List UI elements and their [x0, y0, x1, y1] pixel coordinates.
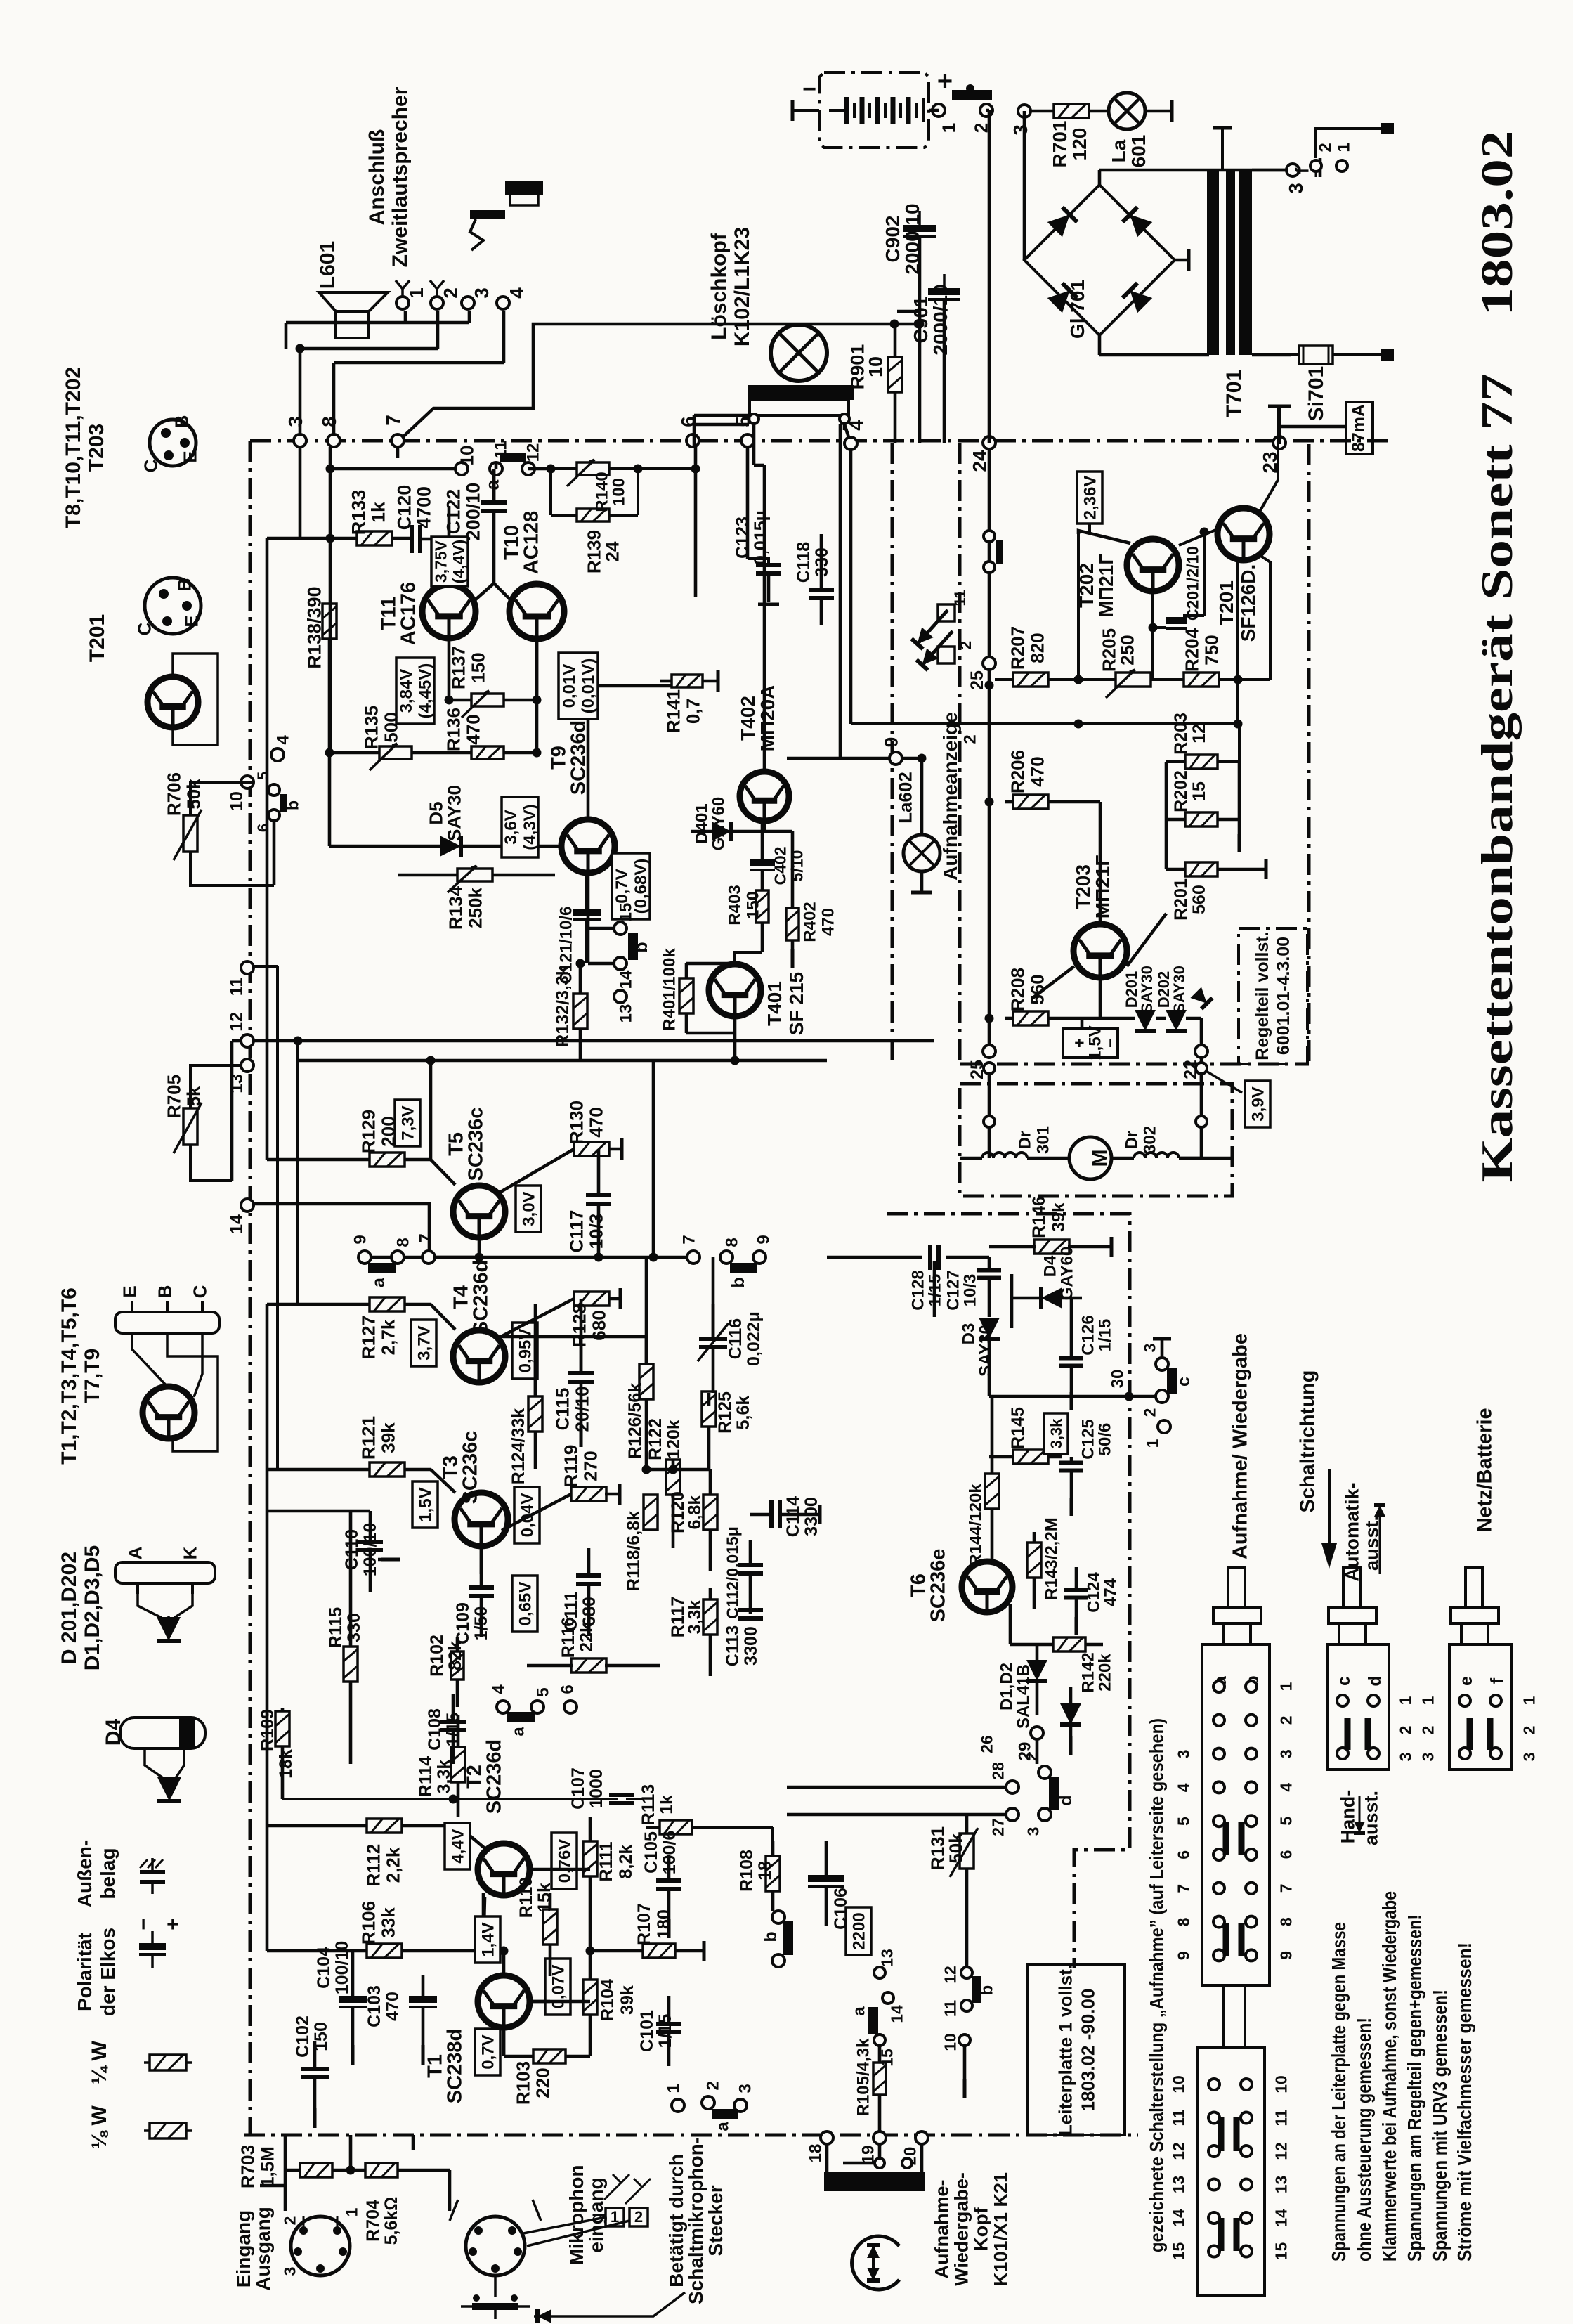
wafer2 body	[1197, 2048, 1265, 2295]
svg-text:B: B	[171, 415, 192, 429]
svg-text:f: f	[1291, 167, 1312, 174]
capacitor C124	[1064, 1567, 1121, 1635]
resistor R133	[348, 490, 392, 545]
resistor R112	[267, 1819, 485, 1886]
svg-text:R122: R122	[646, 1418, 665, 1460]
capacitor C128 C127	[827, 1245, 1001, 1317]
label Anschluss Zweitlautsprecher	[365, 86, 412, 267]
svg-text:E: E	[181, 615, 202, 627]
svg-text:8: 8	[318, 416, 340, 427]
transistor T201	[1179, 406, 1278, 724]
svg-text:3,3k: 3,3k	[434, 1760, 454, 1794]
resistor R132	[553, 959, 587, 1061]
svg-text:C902: C902	[882, 216, 903, 263]
wire erase head connections	[694, 415, 851, 758]
voltage box 0,7V 0,68V	[612, 853, 651, 919]
caption line 6	[1454, 1942, 1475, 2261]
svg-text:D1,D2,D3,D5: D1,D2,D3,D5	[81, 1545, 104, 1670]
svg-text:470: 470	[462, 714, 483, 744]
svg-text:R105/4,3k: R105/4,3k	[854, 2038, 873, 2116]
transistor T203	[1033, 802, 1166, 998]
mic switch bar	[461, 2294, 530, 2319]
transistor T202	[1076, 539, 1179, 617]
svg-text:Dr: Dr	[1016, 1131, 1035, 1150]
capacitor C901	[910, 274, 960, 356]
svg-text:15: 15	[1189, 781, 1209, 801]
erase head K102	[748, 385, 854, 424]
capacitor C105	[641, 1831, 681, 1938]
voltage box 0,07V	[545, 1959, 570, 2015]
switch e near battery	[932, 84, 993, 133]
svg-text:14: 14	[887, 2005, 906, 2023]
svg-text:3,6V: 3,6V	[502, 810, 521, 844]
svg-text:M: M	[1088, 1150, 1111, 1167]
svg-text:T203: T203	[1072, 864, 1094, 909]
svg-text:R126/56k: R126/56k	[625, 1383, 645, 1460]
pushbutton ab stem	[1213, 1567, 1261, 1644]
svg-text:1: 1	[1520, 1696, 1538, 1705]
svg-text:R114: R114	[416, 1756, 436, 1797]
svg-text:R146: R146	[1029, 1196, 1049, 1238]
head switch contacts 13 14 15	[850, 1949, 906, 2067]
capacitor C103	[365, 1975, 437, 2065]
svg-text:Spannungen mit URV3 gemessen!: Spannungen mit URV3 gemessen!	[1429, 1989, 1451, 2261]
resistor R122	[646, 1418, 709, 1548]
transistor T10	[500, 511, 564, 639]
svg-text:R204: R204	[1181, 628, 1202, 672]
svg-text:330: 330	[344, 1613, 364, 1642]
capacitor C117	[566, 1149, 611, 1257]
capacitor C107	[453, 1767, 643, 1810]
svg-text:R124/33k: R124/33k	[509, 1408, 528, 1485]
capacitor C902	[882, 203, 936, 274]
wire bottom bus nodes	[807, 2131, 928, 2165]
capacitor C101	[637, 1996, 681, 2066]
battery cells	[829, 97, 924, 124]
legend label T1-T6 T7 T9	[58, 1287, 104, 1465]
svg-text:1,5V: 1,5V	[417, 1487, 436, 1521]
svg-text:C118: C118	[794, 542, 814, 583]
svg-text:Hand-: Hand-	[1338, 1790, 1359, 1844]
node 29	[1016, 1727, 1043, 1764]
voltage box 3,75V	[431, 537, 468, 586]
resistor R105	[854, 2038, 886, 2135]
svg-text:R402: R402	[801, 902, 820, 942]
svg-text:Mikrophon: Mikrophon	[566, 2164, 587, 2265]
transistor T6	[907, 1549, 1012, 1623]
wire bottom border horizontal	[244, 2134, 1138, 2137]
pushbutton ab numbers left	[1174, 1750, 1192, 1961]
svg-text:1000: 1000	[587, 1769, 606, 1808]
diodes D1 D2	[998, 1644, 1081, 1755]
svg-text:R102: R102	[427, 1635, 447, 1677]
voltage box 2,36V	[1077, 472, 1102, 680]
svg-text:13: 13	[877, 1949, 896, 1967]
svg-text:7: 7	[382, 415, 404, 426]
node 3 on top bus	[285, 416, 306, 447]
node 4 near erase head	[844, 420, 867, 450]
svg-text:Ausgang: Ausgang	[252, 2207, 274, 2291]
legend transistor symbol T201	[148, 654, 218, 745]
svg-text:R125: R125	[715, 1391, 735, 1434]
svg-text:R143/2,2M: R143/2,2M	[1043, 1517, 1062, 1599]
svg-text:4: 4	[490, 1684, 509, 1694]
svg-text:750: 750	[1201, 635, 1222, 665]
svg-text:R701: R701	[1049, 121, 1071, 168]
svg-text:R136: R136	[443, 708, 464, 751]
switch row 1 2 3 bottom	[665, 2081, 755, 2131]
resistor R141	[660, 670, 718, 733]
svg-text:T401: T401	[764, 981, 785, 1026]
svg-text:−: −	[1102, 1038, 1121, 1048]
svg-text:1: 1	[665, 2084, 684, 2093]
svg-text:3,9V: 3,9V	[1249, 1086, 1268, 1121]
transistor T2	[463, 1739, 530, 1895]
resistor R136	[443, 708, 504, 759]
capacitor C126	[1059, 1298, 1115, 1410]
svg-text:6: 6	[1174, 1850, 1192, 1859]
legend label T8 T10 T11 T202 T203	[62, 367, 108, 528]
svg-text:25: 25	[967, 670, 987, 690]
switch b contacts 11 12	[941, 1966, 996, 2098]
wire mid bus	[435, 1060, 687, 1262]
svg-text:24: 24	[601, 541, 622, 561]
node 7 on top bus	[382, 415, 404, 447]
svg-text:27: 27	[988, 1818, 1007, 1836]
pot R205	[1078, 628, 1183, 698]
label Leiterplatte box	[1027, 1964, 1125, 2136]
svg-text:a: a	[714, 2122, 733, 2131]
svg-text:11: 11	[951, 590, 969, 606]
svg-text:E: E	[179, 450, 200, 462]
voltage box 0,95V	[512, 1323, 537, 1379]
resistor R125	[702, 1391, 753, 1469]
resistor R114	[416, 1715, 465, 1817]
svg-text:R206: R206	[1007, 750, 1028, 793]
svg-text:ausst.: ausst.	[1361, 1791, 1382, 1845]
svg-text:0,76V: 0,76V	[556, 1839, 575, 1883]
lamp La602	[894, 754, 940, 893]
switch contact b bottom	[761, 1911, 788, 1967]
svg-text:12: 12	[227, 1012, 247, 1032]
svg-text:4: 4	[1277, 1783, 1295, 1792]
transformer T701	[1207, 128, 1286, 417]
svg-text:C125: C125	[1079, 1419, 1098, 1459]
svg-text:b: b	[729, 1277, 748, 1287]
trimmer C116	[698, 1257, 764, 1393]
pushbutton ab numbers right	[1277, 1682, 1295, 1959]
resistor R118	[624, 1495, 658, 1591]
svg-text:R104: R104	[598, 1979, 618, 2021]
svg-text:T203: T203	[85, 424, 108, 472]
svg-text:9: 9	[1174, 1951, 1192, 1960]
resistor R119	[502, 1445, 620, 1531]
switch d contacts	[787, 1735, 1076, 1836]
svg-text:Polarität: Polarität	[74, 1933, 96, 2011]
svg-text:1,4V: 1,4V	[479, 1922, 498, 1956]
pot R705	[163, 1041, 241, 1181]
svg-text:5: 5	[534, 1687, 553, 1696]
wire motor module box	[960, 1084, 1232, 1196]
svg-text:1: 1	[342, 2207, 360, 2216]
wire record module border	[892, 443, 1309, 1064]
pot R706	[163, 772, 274, 885]
node 23 on top bus	[1259, 436, 1286, 474]
svg-text:180: 180	[654, 1909, 674, 1939]
svg-text:9: 9	[351, 1235, 370, 1244]
svg-text:C120: C120	[394, 485, 415, 531]
node 8 on top bus	[318, 416, 340, 447]
svg-text:3: 3	[1285, 183, 1307, 194]
legend symbol Polaritaet	[132, 1918, 185, 1968]
voltage box 4,4V	[445, 1823, 470, 1869]
svg-text:2000/10: 2000/10	[929, 284, 951, 355]
svg-text:2: 2	[1140, 1408, 1158, 1417]
svg-text:SC236d: SC236d	[469, 1260, 492, 1335]
svg-text:C103: C103	[365, 1985, 384, 2027]
svg-text:D1,D2: D1,D2	[998, 1663, 1017, 1710]
svg-text:C102: C102	[293, 2015, 313, 2058]
resistor R130	[500, 1101, 622, 1193]
voltage box 0,76V	[551, 1833, 577, 1889]
speaker L601	[319, 292, 388, 338]
svg-text:D401: D401	[693, 803, 712, 843]
wire bridge	[1024, 111, 1307, 355]
voltage box 3,0V	[516, 1186, 541, 1232]
svg-text:a: a	[369, 1277, 389, 1287]
svg-text:C117: C117	[566, 1210, 587, 1253]
capacitor C110	[267, 1511, 400, 1592]
svg-text:11: 11	[1169, 2109, 1187, 2127]
wire erase feed node7 diagonal	[399, 320, 925, 441]
svg-text:a: a	[509, 1727, 528, 1736]
terminal 3	[462, 287, 492, 309]
resistor R204	[1181, 628, 1270, 687]
svg-text:Si701: Si701	[1305, 366, 1328, 421]
motor M	[1069, 1137, 1111, 1179]
svg-text:18: 18	[807, 2144, 825, 2163]
voltage box 3,7V	[411, 1320, 436, 1366]
mains connector f	[1291, 129, 1353, 177]
svg-text:Aufnahme/ Wiedergabe: Aufnahme/ Wiedergabe	[1229, 1333, 1251, 1559]
svg-text:7: 7	[1277, 1883, 1295, 1893]
voltage box 0,65V	[512, 1576, 537, 1632]
capacitor C109	[453, 1546, 494, 1644]
diode D401	[691, 797, 762, 851]
svg-text:4: 4	[274, 735, 293, 745]
svg-text:eingang: eingang	[585, 2177, 607, 2252]
svg-text:ohne Aussteuerung gemessen!: ohne Aussteuerung gemessen!	[1353, 2018, 1375, 2261]
legend D4 package	[120, 1718, 205, 1778]
node 6 on top bus	[677, 416, 699, 447]
resistor R116	[527, 1617, 660, 1673]
svg-text:2: 2	[440, 287, 462, 299]
svg-text:(4,45V): (4,45V)	[416, 663, 435, 719]
svg-text:Regelteil vollst.: Regelteil vollst.	[1253, 931, 1272, 1060]
svg-text:Spannungen am Regelteil gegen+: Spannungen am Regelteil gegen+gemessen!	[1404, 1914, 1425, 2261]
svg-text:R202: R202	[1171, 770, 1191, 812]
svg-text:−: −	[802, 76, 816, 103]
svg-text:f: f	[1487, 1677, 1507, 1684]
svg-text:Stecker: Stecker	[705, 2185, 726, 2256]
capacitor C114	[750, 1496, 821, 1537]
svg-text:SAL41B: SAL41B	[1014, 1664, 1033, 1729]
svg-text:a: a	[481, 479, 502, 490]
svg-text:R208: R208	[1007, 968, 1028, 1011]
svg-text:82k: 82k	[445, 1641, 465, 1670]
resistor R124	[509, 1304, 542, 1484]
svg-text:МП20A: МП20A	[757, 685, 778, 752]
svg-text:T7,T9: T7,T9	[81, 1349, 104, 1403]
svg-text:50k: 50k	[945, 1833, 966, 1864]
pushbutton cd numbers	[1396, 1696, 1437, 1761]
svg-text:11: 11	[492, 441, 511, 458]
svg-text:(0,01V): (0,01V)	[579, 658, 598, 714]
svg-text:39k: 39k	[1049, 1202, 1069, 1232]
azimuth symbol	[852, 2236, 899, 2290]
svg-text:R112: R112	[363, 1844, 384, 1887]
svg-text:1,5M: 1,5M	[256, 2146, 278, 2187]
voltage box 3,6V	[502, 797, 540, 857]
svg-text:a: a	[850, 2006, 869, 2016]
wire psu caps	[897, 236, 944, 443]
svg-text:Netz/Batterie: Netz/Batterie	[1473, 1408, 1496, 1532]
wire battery to node24	[929, 110, 989, 443]
svg-text:R115: R115	[326, 1607, 346, 1648]
voltage box 0,01V	[559, 653, 598, 719]
svg-text:SC236d: SC236d	[483, 1739, 505, 1814]
resistor R127	[267, 1297, 455, 1359]
svg-text:5k: 5k	[183, 1086, 204, 1106]
resistor R138	[304, 586, 337, 668]
meter arrows	[911, 590, 974, 670]
capacitor C108	[425, 1694, 466, 1764]
svg-text:14: 14	[1169, 2209, 1187, 2227]
svg-text:3: 3	[471, 287, 492, 299]
svg-text:3,3k: 3,3k	[685, 1600, 705, 1635]
svg-text:150: 150	[744, 891, 763, 919]
svg-text:6: 6	[1277, 1850, 1295, 1859]
svg-text:2: 2	[1277, 1715, 1295, 1725]
svg-text:8: 8	[394, 1238, 413, 1247]
svg-text:Aufnahmeanzeige: Aufnahmeanzeige	[939, 712, 961, 881]
svg-text:8: 8	[723, 1238, 742, 1247]
wire mains lead	[1252, 349, 1394, 361]
svg-text:0,015μ: 0,015μ	[751, 510, 771, 565]
capacitor C102	[293, 2015, 331, 2128]
svg-text:1: 1	[1396, 1696, 1414, 1705]
svg-text:13: 13	[617, 1004, 636, 1023]
svg-text:470: 470	[585, 1107, 606, 1137]
svg-text:12: 12	[524, 443, 543, 462]
capacitor C113	[723, 1610, 763, 1666]
svg-text:−: −	[132, 1918, 155, 1930]
svg-text:Betätigt durch: Betätigt durch	[665, 2154, 687, 2287]
svg-text:14: 14	[227, 1214, 247, 1234]
svg-text:5: 5	[254, 772, 272, 780]
resistor R107	[590, 1903, 704, 1961]
svg-text:15: 15	[617, 903, 636, 922]
label Aufnahme Wiedergabe switch	[1229, 1333, 1251, 1559]
svg-text:2: 2	[961, 734, 980, 744]
pot R140 loop	[551, 460, 643, 515]
svg-text:3: 3	[1140, 1344, 1158, 1353]
svg-text:Wiedergabe-: Wiedergabe-	[951, 2172, 972, 2286]
voltage box 1,4V	[475, 1916, 500, 1963]
svg-text:0,01V: 0,01V	[560, 664, 579, 708]
svg-text:SF126D.: SF126D.	[1237, 564, 1259, 642]
svg-text:8: 8	[1277, 1917, 1295, 1926]
speaker L601 label	[316, 241, 339, 289]
svg-text:T402: T402	[737, 696, 759, 741]
svg-text:R704: R704	[363, 2200, 383, 2242]
wafer2 numbers	[1169, 2075, 1290, 2260]
svg-text:C: C	[140, 459, 161, 472]
capacitor C201	[1149, 546, 1202, 680]
svg-text:8: 8	[1174, 1917, 1192, 1926]
svg-text:SC236e: SC236e	[927, 1549, 949, 1623]
svg-text:A: A	[124, 1546, 145, 1559]
legend label D4	[102, 1719, 125, 1746]
svg-text:10: 10	[866, 356, 887, 377]
svg-text:3: 3	[285, 416, 306, 427]
svg-text:C: C	[133, 622, 155, 635]
svg-text:11: 11	[227, 978, 247, 997]
svg-text:1803.02 -90.00: 1803.02 -90.00	[1077, 1989, 1098, 2112]
label Aufnahmeanzeige	[939, 712, 961, 881]
svg-text:R142: R142	[1079, 1652, 1098, 1692]
wire main module border left vertical	[249, 441, 252, 2135]
voltage box 3,9V	[1201, 1058, 1270, 1127]
svg-text:R134: R134	[445, 885, 466, 930]
svg-text:C123: C123	[733, 517, 752, 559]
svg-text:10: 10	[941, 2033, 959, 2051]
svg-text:12: 12	[1189, 724, 1209, 744]
svg-text:3: 3	[1010, 124, 1031, 136]
legend label T201	[86, 614, 109, 662]
svg-text:C402: C402	[771, 847, 789, 885]
svg-text:GAY60: GAY60	[710, 797, 729, 851]
choke Dr302	[1111, 1126, 1232, 1158]
svg-text:120: 120	[1069, 128, 1090, 161]
svg-text:K102/L1K23: K102/L1K23	[731, 227, 754, 346]
pushbutton cd body	[1327, 1644, 1389, 1770]
wire motor leads	[984, 1063, 1207, 1158]
svg-text:10: 10	[1272, 2075, 1290, 2093]
svg-text:1: 1	[1143, 1439, 1161, 1448]
svg-text:18k: 18k	[276, 1749, 296, 1779]
svg-text:3,75V: 3,75V	[431, 540, 450, 583]
svg-text:9: 9	[1277, 1951, 1295, 1960]
svg-text:1/15: 1/15	[655, 2014, 675, 2049]
svg-text:560: 560	[1026, 974, 1047, 1004]
transistor T401	[709, 964, 807, 1035]
legend D4 diode symbol	[157, 1777, 181, 1801]
box Regelteil	[1239, 928, 1307, 1064]
svg-text:3: 3	[280, 2267, 299, 2276]
svg-text:c: c	[1334, 1676, 1354, 1686]
svg-text:0,022μ: 0,022μ	[744, 1311, 764, 1366]
capacitor C104	[314, 1941, 367, 2065]
svg-text:7: 7	[417, 1233, 436, 1242]
svg-text:3,84V: 3,84V	[397, 669, 416, 713]
resistor R701	[1049, 104, 1090, 167]
pushbutton ef numbers	[1520, 1696, 1538, 1761]
svg-text:T8,T10,T11,T202: T8,T10,T11,T202	[62, 367, 85, 528]
svg-text:C124: C124	[1085, 1572, 1104, 1613]
wire record amp	[588, 686, 920, 1065]
svg-text:Spannungen an der Leiterplatt: Spannungen an der Leiterplatte gegen Mas…	[1328, 1922, 1350, 2261]
